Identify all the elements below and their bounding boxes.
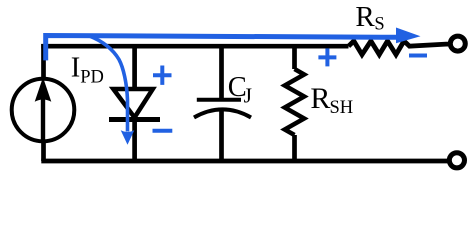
svg-text:S: S [374,14,384,34]
svg-text:I: I [71,52,81,83]
svg-text:PD: PD [80,68,104,88]
svg-text:J: J [244,83,252,107]
svg-text:R: R [310,82,330,115]
svg-text:R: R [355,1,375,33]
svg-text:SH: SH [330,98,354,118]
